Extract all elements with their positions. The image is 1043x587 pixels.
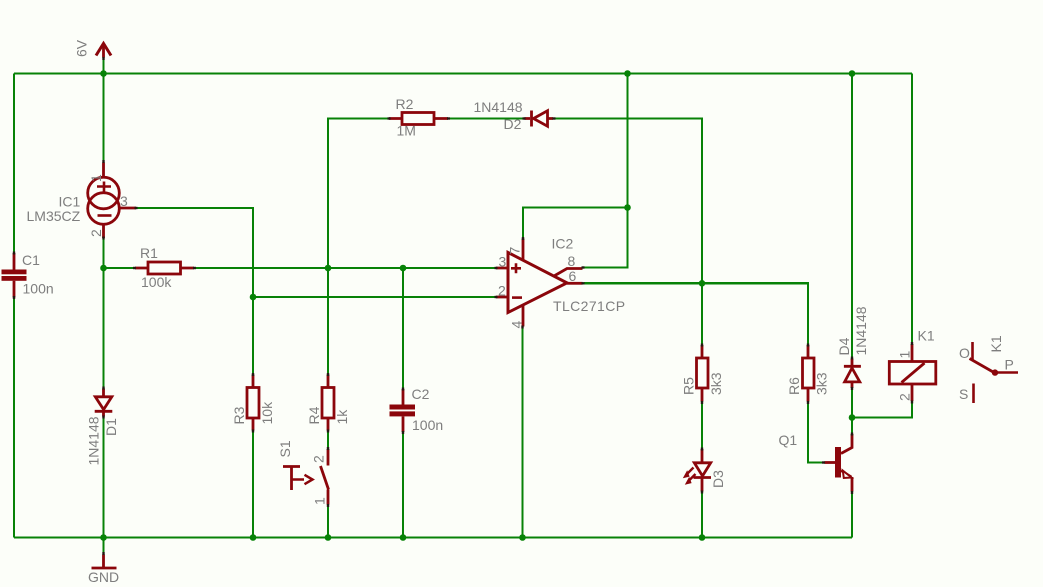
junction output to R5: [699, 280, 706, 287]
pin mark D3 top: [701, 448, 703, 451]
label C2: [412, 386, 430, 402]
capacitor C1: [2, 253, 27, 298]
wire Q1 emitter to bottom rail corner: [851, 492, 853, 538]
pin mark R2 right: [447, 117, 450, 119]
svg-text:3k3: 3k3: [708, 372, 724, 395]
wire top rail corner down to relay pin1: [911, 74, 913, 343]
svg-text:R4: R4: [306, 406, 322, 424]
IC1 temperature sensor LM35CZ: [88, 163, 136, 239]
label D4: [836, 337, 852, 355]
pin 1 IC1: [88, 174, 104, 182]
pin mark R6 top: [807, 344, 809, 347]
pin mark C2 top: [402, 388, 404, 391]
svg-text:TLC271CP: TLC271CP: [553, 298, 625, 314]
pin mark op-amp pin8: [582, 266, 585, 268]
label D1: [103, 418, 119, 436]
pin 1 S1: [312, 497, 328, 505]
pin mark IC1 pin3: [135, 207, 138, 209]
svg-text:R3: R3: [231, 406, 247, 424]
svg-text:O: O: [959, 345, 970, 361]
resistor R5: [697, 345, 709, 402]
label 1N4148 D1: [86, 416, 102, 465]
pin mark GND: [102, 552, 104, 555]
junction feedback drop on top rail: [624, 70, 631, 77]
pin 2 relay: [897, 393, 913, 401]
wire R4 branch down from + node: [327, 268, 329, 374]
wire C2 to bottom rail: [402, 433, 404, 538]
pin 2 IC1: [88, 229, 104, 237]
wire R4 to S1: [327, 431, 329, 448]
junction node A plus-input left: [100, 265, 107, 272]
svg-text:R6: R6: [786, 377, 802, 395]
junction GND on bottom rail: [100, 534, 107, 541]
svg-text:1N4148: 1N4148: [86, 416, 102, 465]
wire R6 bottom to Q1 base: [808, 402, 824, 463]
junction R2/R4 on plus line: [325, 265, 332, 272]
pin mark IC1 pin1: [102, 160, 104, 163]
pin mark C2 bottom: [402, 431, 404, 434]
wire noninverting line R1 to op-amp pin3: [195, 267, 495, 269]
svg-text:100k: 100k: [141, 274, 172, 290]
svg-text:1: 1: [88, 174, 104, 182]
svg-text:K1: K1: [918, 328, 935, 344]
pin mark D1 bottom: [102, 416, 104, 419]
pin mark relay pin2: [911, 401, 913, 404]
svg-text:P: P: [1005, 357, 1014, 373]
pin mark D4 top: [851, 357, 853, 360]
svg-text:GND: GND: [88, 569, 119, 585]
label 1N4148 D2: [474, 99, 523, 115]
wire top rail down to D4 cathode: [851, 74, 853, 358]
wire R2 to D2: [449, 117, 524, 119]
label IC2: [552, 236, 574, 252]
diode D4: [844, 359, 861, 389]
wire D3 to bottom rail: [701, 492, 703, 538]
svg-text:8: 8: [568, 253, 576, 269]
svg-text:1: 1: [897, 351, 913, 359]
svg-text:2: 2: [897, 393, 913, 401]
junction R3 on bottom rail: [250, 534, 257, 541]
wire inverting input from node to op-amp pin2: [253, 296, 495, 298]
wire output line pin6 to R6 corner: [584, 283, 808, 343]
pin mark relay pin1: [911, 342, 913, 345]
pin mark R3 top: [252, 373, 254, 376]
svg-text:Q1: Q1: [779, 432, 798, 448]
svg-text:S: S: [959, 386, 968, 402]
pin mark D2 left: [523, 117, 526, 119]
op-amp U1 IC2 TLC271CP: [496, 239, 583, 327]
pin mark C1 top: [13, 252, 15, 255]
junction C2 on bottom rail: [400, 534, 407, 541]
value 1k: [334, 409, 350, 425]
pin mark op-amp pin7: [522, 237, 524, 240]
svg-text:3: 3: [499, 254, 507, 270]
pin mark D4 bottom: [851, 387, 853, 390]
pin 7 op-amp: [507, 247, 523, 255]
pin mark R2 left: [388, 117, 391, 119]
label GND: [88, 569, 119, 585]
label R6: [786, 377, 802, 395]
pin mark op-amp pin4: [521, 326, 523, 329]
wire noninverting line left segment: [104, 267, 135, 269]
wire R2 branch up from + node: [328, 119, 388, 269]
svg-text:D2: D2: [504, 116, 522, 132]
pin mark R5 top: [701, 344, 703, 347]
pin mark D3 bottom: [701, 491, 703, 494]
relay coil K1: [889, 344, 936, 401]
svg-text:2: 2: [498, 283, 506, 299]
wire GND stub: [102, 538, 104, 553]
junction minus input node: [250, 294, 257, 301]
pin mark R5 bottom: [701, 401, 703, 404]
value 3k3 R5: [708, 372, 724, 395]
value 3k3 R6: [814, 372, 830, 395]
svg-text:1k: 1k: [334, 409, 350, 425]
wire R3 bottom to rail: [252, 431, 254, 538]
pin mark D2 right: [553, 117, 556, 119]
wire bottom rail: [14, 536, 852, 538]
resistor R6: [803, 345, 815, 402]
relay contact K1: [970, 342, 1019, 403]
svg-text:LM35CZ: LM35CZ: [27, 208, 81, 224]
capacitor C2: [390, 389, 416, 432]
svg-text:R2: R2: [396, 96, 414, 112]
label R4: [306, 406, 322, 424]
wire op-amp pin7 up and over to feedback node: [523, 208, 628, 238]
label S1: [277, 440, 293, 457]
wire C1 bottom to bottom rail: [13, 298, 15, 538]
svg-text:6V: 6V: [74, 39, 90, 57]
svg-text:6: 6: [569, 268, 577, 284]
value TLC271CP: [553, 298, 625, 314]
svg-text:R5: R5: [681, 377, 697, 395]
wire 6V rail to IC1 pin1: [102, 74, 104, 162]
label 1N4148 D4: [853, 306, 869, 355]
pin mark S1 top: [327, 447, 329, 450]
svg-text:D4: D4: [836, 337, 852, 355]
transistor Q1: [825, 434, 853, 492]
label 6V: [74, 39, 90, 57]
label R3: [231, 406, 247, 424]
wire C2 branch down from + node: [402, 268, 404, 388]
label O contact: [959, 345, 970, 361]
svg-text:7: 7: [507, 247, 523, 255]
svg-text:IC2: IC2: [552, 236, 574, 252]
resistor R4: [322, 375, 334, 431]
value 10k: [259, 401, 275, 425]
svg-text:K1: K1: [988, 335, 1004, 352]
pin 2 S1: [311, 455, 327, 463]
pin 6 op-amp: [569, 268, 577, 284]
label Q1: [779, 432, 798, 448]
svg-text:1: 1: [312, 497, 328, 505]
junction op-amp pin4 on bottom rail: [519, 534, 526, 541]
wire D4 anode to collector node: [851, 389, 853, 434]
label P contact: [1005, 357, 1014, 373]
junction C2 on plus line: [400, 265, 407, 272]
svg-text:1M: 1M: [397, 123, 416, 139]
pin mark R3 bottom: [252, 430, 254, 433]
wire top rail down to feedback node: [626, 74, 628, 208]
pin mark Q1 base: [822, 461, 825, 463]
pin mark op-amp pin3: [495, 267, 498, 269]
label R5: [681, 377, 697, 395]
wire R5 branch down from output node: [701, 283, 703, 344]
pin 4 op-amp: [509, 321, 525, 329]
value 100k: [141, 274, 172, 290]
diode D1: [95, 389, 113, 417]
svg-text:100n: 100n: [23, 281, 54, 297]
value 1M: [397, 123, 416, 139]
label D2: [504, 116, 522, 132]
junction D3 on bottom rail: [699, 534, 706, 541]
pin mark R4 bottom: [327, 430, 329, 433]
svg-text:10k: 10k: [259, 401, 275, 425]
resistor R1: [135, 262, 194, 274]
wire 6V stub: [102, 60, 104, 74]
wire IC1 pin3 to corner and down to R3: [137, 208, 254, 374]
svg-text:R1: R1: [140, 245, 158, 261]
pin mark R6 bottom: [807, 401, 809, 404]
wire IC1 pin2 down through node to D1: [102, 239, 104, 388]
label S contact: [959, 386, 968, 402]
pin mark Q1 emitter: [851, 491, 853, 494]
label R1: [140, 245, 158, 261]
label K1 coil: [918, 328, 935, 344]
label K1 contact: [988, 335, 1004, 352]
pin mark D1 top: [102, 387, 104, 390]
label C1: [22, 252, 40, 268]
value 100n C1: [23, 281, 54, 297]
wire S1 to bottom rail: [327, 506, 329, 538]
supply 6V arrow: [96, 44, 111, 58]
resistor R2: [389, 113, 448, 125]
svg-text:2: 2: [88, 229, 104, 237]
svg-text:3: 3: [120, 193, 128, 209]
pin 3 op-amp: [499, 254, 507, 270]
svg-text:2: 2: [311, 455, 327, 463]
svg-text:C1: C1: [22, 252, 40, 268]
label D3: [710, 470, 726, 488]
value LM35CZ: [27, 208, 81, 224]
label IC1: [59, 194, 81, 210]
pin mark IC1 pin2: [102, 237, 104, 240]
junction 6V node on top rail: [100, 70, 107, 77]
pin 1 relay: [897, 351, 913, 359]
pin mark op-amp pin2: [495, 296, 498, 298]
pin 2 op-amp: [498, 283, 506, 299]
pin mark R1 right: [193, 267, 196, 269]
resistor R3: [247, 375, 259, 431]
svg-text:3k3: 3k3: [814, 372, 830, 395]
wire op-amp pin4 to bottom rail: [521, 327, 523, 538]
wire D2 to corner down to output line: [554, 119, 702, 284]
pin mark S1 bottom: [327, 504, 329, 507]
pin mark R4 top: [327, 373, 329, 376]
svg-text:C2: C2: [412, 386, 430, 402]
pin mark R1 left: [133, 267, 136, 269]
svg-text:100n: 100n: [412, 417, 443, 433]
junction feedback node pin7/pin8: [624, 204, 631, 211]
svg-text:1N4148: 1N4148: [853, 306, 869, 355]
ground: [92, 555, 117, 569]
wire D1 to bottom rail: [102, 417, 104, 538]
diode D2: [525, 111, 554, 127]
junction D4 branch on top rail: [849, 70, 856, 77]
wire feedback node down to pin8: [584, 208, 628, 268]
wire relay pin2 down and left to collector node: [852, 402, 912, 418]
wire left edge down to C1: [13, 74, 15, 254]
pin mark op-amp pin6: [582, 282, 585, 284]
pin mark C1 bottom: [13, 296, 15, 299]
junction D4/relay/collector node: [849, 414, 856, 421]
LED D3: [683, 449, 711, 492]
pin mark 6V: [102, 57, 104, 60]
value 100n C2: [412, 417, 443, 433]
wire top rail: [14, 72, 912, 74]
pin 8 op-amp: [568, 253, 576, 269]
junction S1 on bottom rail: [325, 534, 332, 541]
wire R5 to D3: [701, 402, 703, 448]
svg-text:S1: S1: [277, 440, 293, 457]
svg-text:D1: D1: [103, 418, 119, 436]
pin 3 IC1: [120, 193, 128, 209]
svg-text:D3: D3: [710, 470, 726, 488]
svg-text:1N4148: 1N4148: [474, 99, 523, 115]
pin mark Q1 collector: [851, 433, 853, 436]
switch S1: [283, 449, 329, 505]
label R2: [396, 96, 414, 112]
